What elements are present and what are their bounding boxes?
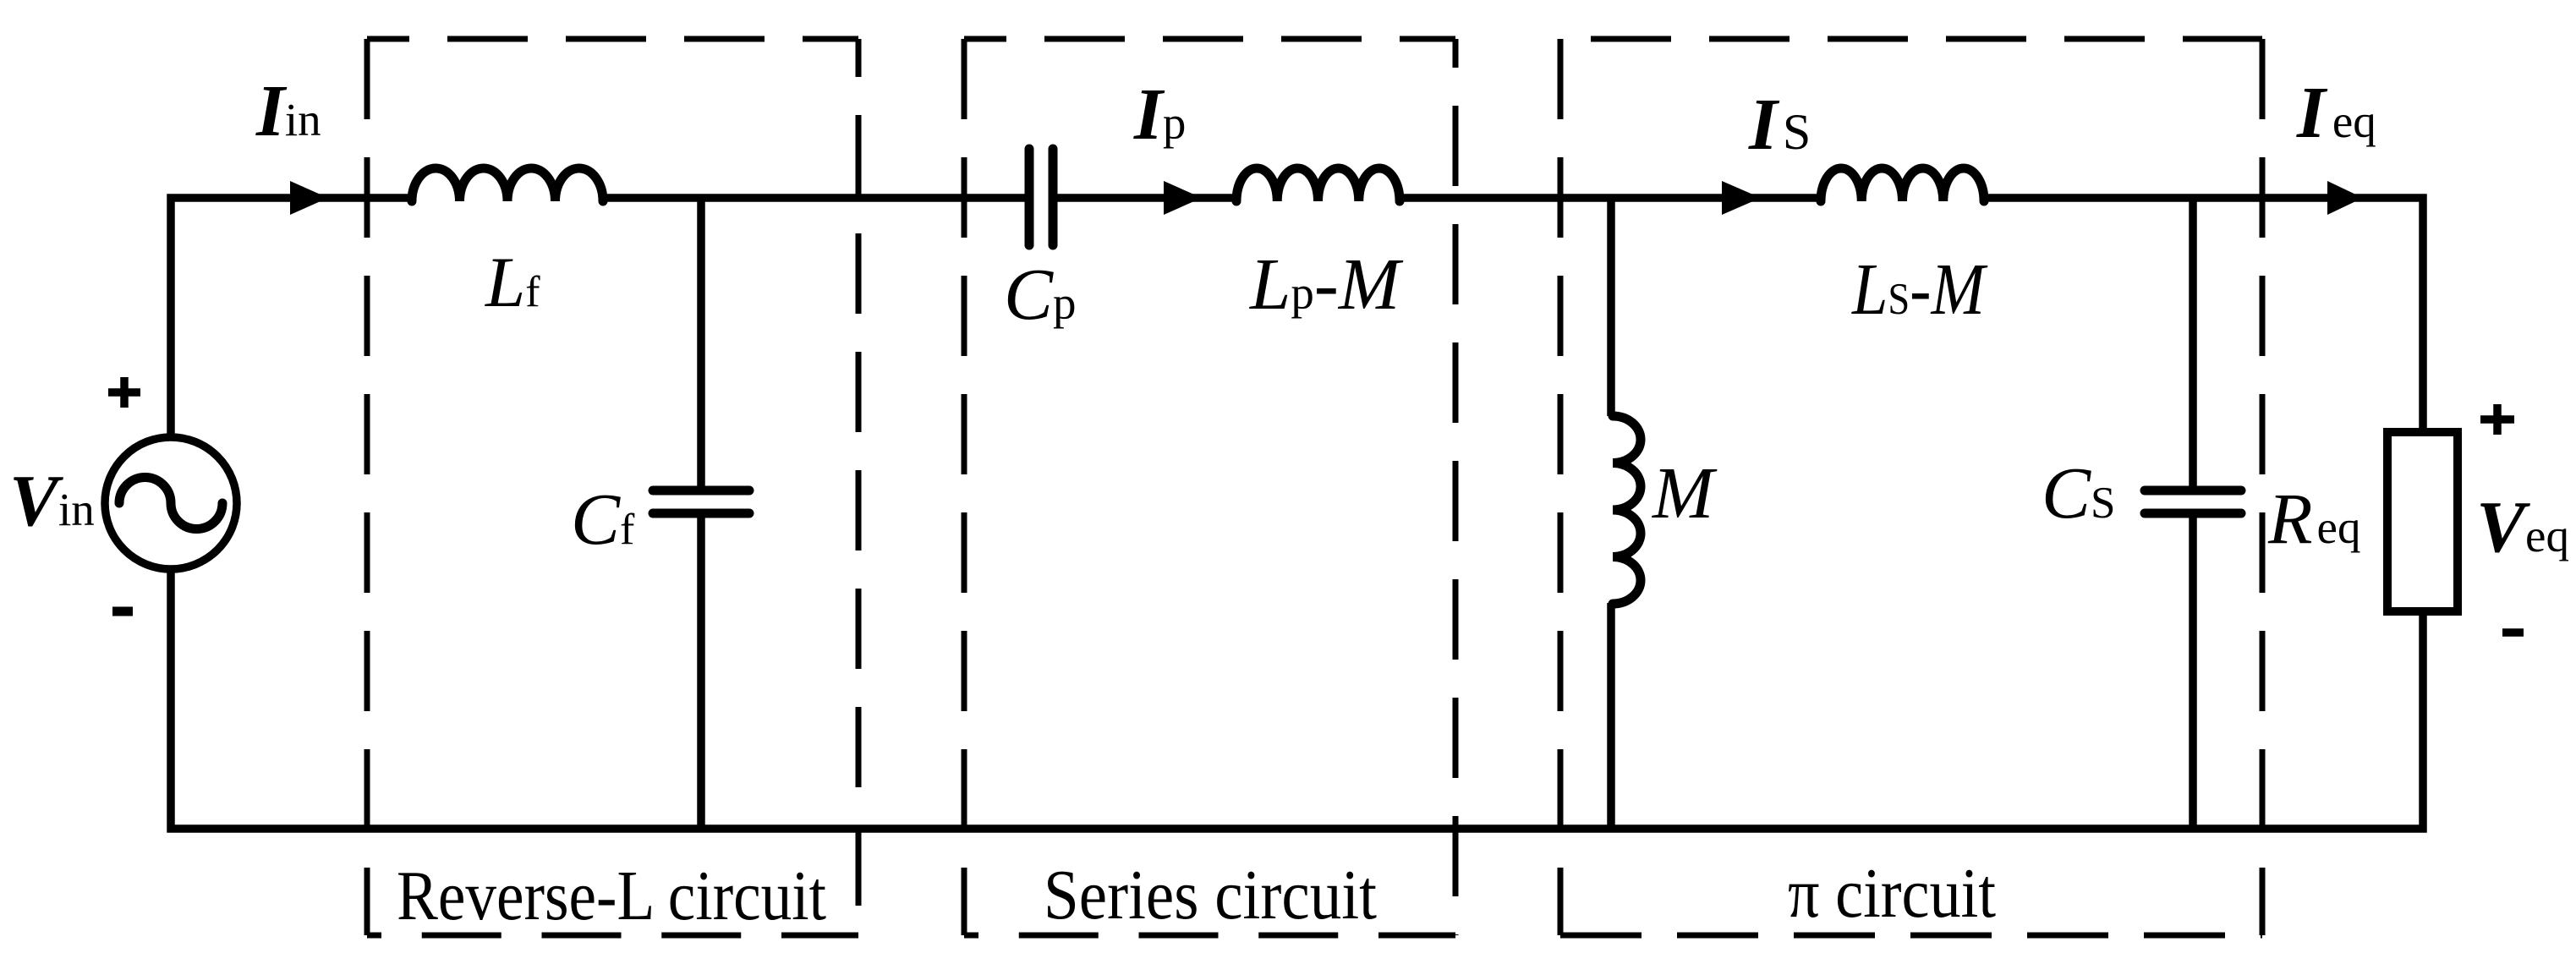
wire top: Lp-M to inductor Ls-M (junction node M at 1905) (1399, 194, 1822, 202)
capacitor Cp plates (1029, 149, 1053, 245)
AC source sine wave (119, 478, 222, 529)
wire M branch bottom (1607, 603, 1615, 829)
capacitor Cs plates (2145, 490, 2241, 513)
wire top: Cp to inductor Lp-M (1057, 194, 1237, 202)
svg-text:Series circuit: Series circuit (1044, 856, 1377, 934)
capacitor Cs bottom lead (2189, 518, 2197, 829)
capacitor Cs top lead (2189, 198, 2197, 486)
wire top: Lf to capacitor Cp (junction node Cf at 829) (603, 194, 1025, 202)
svg-text:Reverse-L circuit: Reverse-L circuit (397, 857, 826, 935)
wire top-right: Ls-M to resistor Req (junction node Cs at 2593) (1983, 198, 2423, 432)
inductor Lf (412, 168, 603, 201)
inductor M vertical (1613, 416, 1641, 604)
inductor Ls-M (1821, 168, 1984, 201)
wire bottom return: source bottom to resistor bottom (171, 569, 2423, 829)
svg-text:M: M (1651, 452, 1718, 534)
plus sign Vin (108, 377, 140, 408)
box Reverse-L circuit (dashed) (367, 39, 858, 935)
AC source Vin circle (105, 437, 237, 569)
wire top-left: source to inductor Lf (171, 198, 412, 437)
current arrow Iin (290, 181, 328, 215)
box pi circuit (dashed) (1560, 39, 2262, 935)
svg-text:LS-M: LS-M (1850, 248, 1988, 330)
plus sign Veq (2480, 404, 2514, 435)
current arrow Ieq (2327, 181, 2363, 215)
capacitor Cf plates (653, 490, 749, 513)
inductor Lp-M (1236, 168, 1400, 201)
resistor Req rectangle (2387, 432, 2458, 611)
svg-text:Lp-M: Lp-M (1248, 243, 1404, 325)
minus sign Veq (2502, 628, 2524, 637)
capacitor Cf top lead (697, 198, 705, 486)
minus sign Vin (112, 607, 133, 616)
wire M branch top (1607, 198, 1615, 416)
current arrow Ip (1164, 181, 1202, 215)
current arrow Is (1722, 181, 1761, 215)
box Series circuit (dashed) (964, 39, 1455, 935)
svg-text:π circuit: π circuit (1788, 854, 1996, 933)
capacitor Cf bottom lead (697, 518, 705, 829)
